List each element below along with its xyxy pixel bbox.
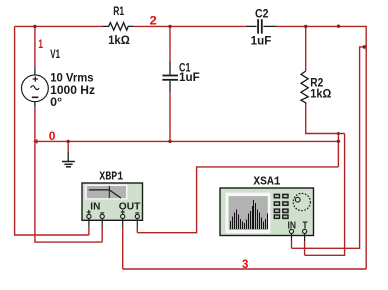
- resistor R1: [102, 23, 133, 31]
- junction node 1 at V1 top: [33, 25, 36, 28]
- label R1: [113, 6, 124, 18]
- value 1kΩ of R1: [108, 35, 130, 47]
- wire XBP1 IN- stub red: [101, 227, 103, 242]
- wire top from C2 to right corner and down: [276, 26, 367, 269]
- wire top from left corner to R1: [15, 25, 103, 27]
- wire XBP1 OUT- stub red: [136, 227, 138, 233]
- wire XSA1 IN stub red: [291, 241, 293, 248]
- svg-text:OUT: OUT: [119, 202, 141, 213]
- svg-text:C2: C2: [255, 9, 269, 21]
- spectrum bars: [230, 200, 268, 229]
- svg-text:R1: R1: [113, 6, 124, 18]
- ground: [62, 152, 75, 167]
- wire R2 top stub: [305, 26, 307, 71]
- svg-text:0°: 0°: [50, 97, 62, 109]
- value 1uF of C2: [251, 36, 272, 48]
- svg-text:XSA1: XSA1: [253, 175, 280, 189]
- wire tee down to T line: [305, 134, 345, 256]
- svg-text:R2: R2: [310, 77, 323, 89]
- wire top from R1 to C2: [134, 25, 246, 27]
- wire net0 link down to OUT- line: [337, 134, 339, 167]
- junction R2 top: [304, 25, 307, 28]
- knob of XSA1: [293, 193, 310, 210]
- svg-text:1kΩ: 1kΩ: [310, 89, 331, 101]
- svg-text:0: 0: [49, 129, 56, 143]
- pin IN of XSA1: [289, 229, 293, 241]
- buttons of XSA1: [274, 194, 288, 218]
- port label IN of XBP1: [90, 202, 100, 213]
- junction dot on top wire: [337, 25, 340, 28]
- svg-text:3: 3: [242, 257, 249, 271]
- wire ground stub red: [67, 141, 69, 151]
- junction C1 bottom on net0: [168, 140, 171, 143]
- wire V1 top stub: [34, 26, 36, 68]
- capacitor C2: [246, 19, 276, 33]
- label C1: [179, 63, 191, 75]
- wire OUT- line: [137, 167, 338, 233]
- svg-text:10 Vrms: 10 Vrms: [50, 72, 93, 84]
- label XBP1: [99, 170, 123, 184]
- svg-text:1kΩ: 1kΩ: [108, 35, 130, 47]
- pin OUT- of XBP1: [135, 214, 139, 227]
- port label OUT of XBP1: [119, 202, 141, 213]
- node 2: [150, 14, 158, 28]
- value 1kΩ of R2: [310, 89, 331, 101]
- junction ground on net0: [67, 140, 70, 143]
- wire left rail node1 to XBP1 IN+: [15, 26, 89, 235]
- plus mark OUT: [121, 210, 125, 214]
- svg-text:1uF: 1uF: [251, 36, 272, 48]
- wire net 0 horizontal: [35, 140, 339, 142]
- capacitor C1: [162, 61, 178, 92]
- source V1: [22, 68, 49, 106]
- node 1: [38, 37, 43, 51]
- pin T of XSA1: [303, 229, 307, 241]
- bode plotter XBP1: [82, 183, 143, 220]
- pin OUT+ of XBP1: [121, 214, 125, 227]
- node 0: [49, 129, 56, 143]
- wire XSA1 IN up to top net: [292, 47, 367, 248]
- label R2: [310, 77, 323, 89]
- svg-text:1: 1: [38, 37, 43, 51]
- wire bottom net 3: [123, 268, 367, 270]
- value 10 Vrms: [50, 72, 93, 84]
- svg-text:1000 Hz: 1000 Hz: [50, 85, 95, 97]
- wire C1 bottom: [169, 92, 171, 141]
- junction jog XSA1-IN riser: [363, 45, 367, 49]
- value 0 degrees: [50, 97, 62, 109]
- junction C1 top: [168, 25, 171, 28]
- minus mark OUT: [135, 212, 139, 214]
- wire XSA1 T stub red: [304, 241, 306, 255]
- value 1uF of C1: [179, 72, 200, 84]
- plus mark IN: [87, 210, 91, 214]
- port label IN of XSA1: [288, 221, 297, 232]
- svg-text:XBP1: XBP1: [99, 170, 123, 184]
- wire V1 bottom to net0 and down to XBP1 IN-: [35, 107, 102, 243]
- junction R2 bottom tee: [337, 132, 340, 135]
- pin IN+ of XBP1: [87, 214, 91, 227]
- label C2: [255, 9, 269, 21]
- svg-text:V1: V1: [50, 49, 60, 61]
- value 1000 Hz: [50, 85, 95, 97]
- wire XBP1 IN+ stub red: [88, 227, 90, 235]
- minus mark IN: [100, 212, 104, 214]
- junction net0 right end: [337, 140, 340, 143]
- svg-text:2: 2: [150, 14, 158, 28]
- node 3: [242, 257, 249, 271]
- label XSA1: [253, 175, 280, 189]
- pin IN- of XBP1: [100, 214, 104, 227]
- resistor R2: [301, 71, 308, 104]
- wire C1 top: [169, 26, 171, 61]
- port label T of XSA1: [303, 221, 308, 232]
- label V1: [50, 49, 60, 61]
- wire R2 bottom to tee: [306, 104, 345, 133]
- wire XBP1 OUT+ down to net 3: [122, 227, 124, 269]
- spectrum analyzer XSA1: [220, 188, 314, 236]
- svg-text:IN: IN: [90, 202, 100, 213]
- svg-text:1uF: 1uF: [179, 72, 200, 84]
- junction arrow at V1 bottom net0: [33, 139, 38, 144]
